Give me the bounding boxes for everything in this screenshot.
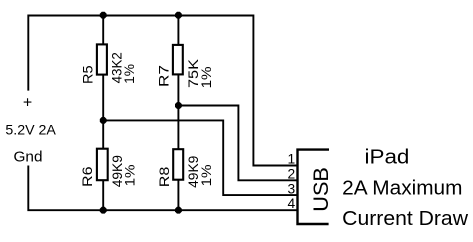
svg-text:5.2V 2A: 5.2V 2A xyxy=(5,123,56,139)
svg-text:1: 1 xyxy=(288,151,296,166)
svg-text:1%: 1% xyxy=(122,64,137,84)
svg-text:+: + xyxy=(23,95,32,112)
svg-text:1%: 1% xyxy=(123,164,138,186)
svg-text:iPad: iPad xyxy=(365,146,410,169)
svg-text:R8: R8 xyxy=(157,166,172,187)
svg-text:R7: R7 xyxy=(156,65,171,87)
svg-text:Current Draw: Current Draw xyxy=(342,207,468,230)
svg-text:1%: 1% xyxy=(199,164,214,186)
svg-text:USB: USB xyxy=(308,167,333,212)
svg-text:R5: R5 xyxy=(80,65,95,84)
svg-text:R6: R6 xyxy=(80,166,95,187)
svg-text:4: 4 xyxy=(288,196,296,211)
svg-text:3: 3 xyxy=(288,181,296,196)
svg-text:Gnd: Gnd xyxy=(14,149,43,165)
svg-text:2A Maximum: 2A Maximum xyxy=(342,177,462,200)
svg-text:2: 2 xyxy=(288,166,296,181)
svg-text:1%: 1% xyxy=(199,66,214,88)
